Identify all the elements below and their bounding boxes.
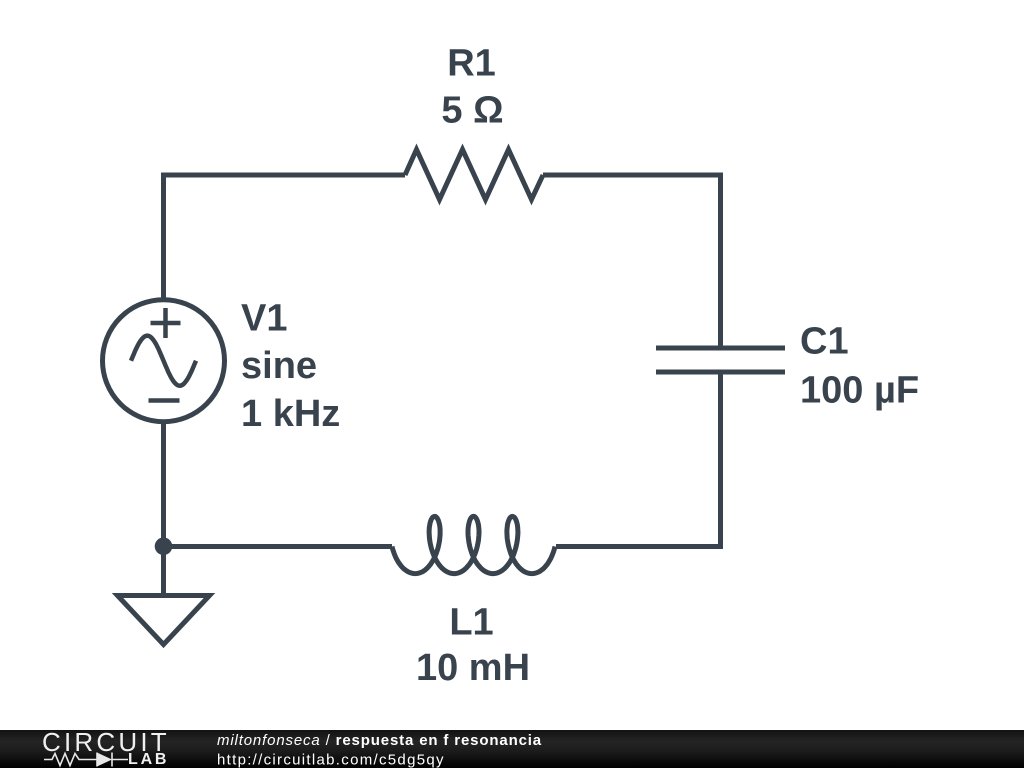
V1 plus sign <box>151 308 181 338</box>
wire top rail right segment <box>543 173 723 178</box>
svg-text:http://circuitlab.com/c5dg5qy: http://circuitlab.com/c5dg5qy <box>217 752 445 768</box>
inductor L1 <box>392 516 555 573</box>
CircuitLab logo resistor-diode glyph <box>44 753 128 767</box>
CircuitLab logo diode triangle <box>97 753 112 767</box>
svg-text:miltonfonseca / respuesta en f: miltonfonseca / respuesta en f resonanci… <box>217 732 542 749</box>
V1 sine waveform <box>131 336 196 386</box>
voltage source V1 circle <box>103 300 225 422</box>
wire left vertical top (V1 top to top rail) <box>161 173 166 300</box>
wire node to ground <box>161 547 166 596</box>
wire right vertical lower (C1 bottom plate to bottom rail) <box>718 372 723 549</box>
ground symbol <box>118 596 210 645</box>
footer bar <box>0 730 1024 768</box>
wire bottom rail right segment <box>556 544 723 549</box>
capacitor C1 <box>656 348 785 372</box>
V1 minus sign <box>149 398 180 403</box>
node junction dot <box>155 538 173 556</box>
wire left vertical lower (V1 bottom to node) <box>161 422 166 547</box>
wire right vertical upper (to C1 top plate) <box>718 173 723 349</box>
wire bottom rail left segment (node to L1) <box>164 544 393 549</box>
svg-text:LAB: LAB <box>128 751 169 768</box>
resistor R1 <box>405 150 543 200</box>
wire top rail left segment <box>161 173 405 178</box>
